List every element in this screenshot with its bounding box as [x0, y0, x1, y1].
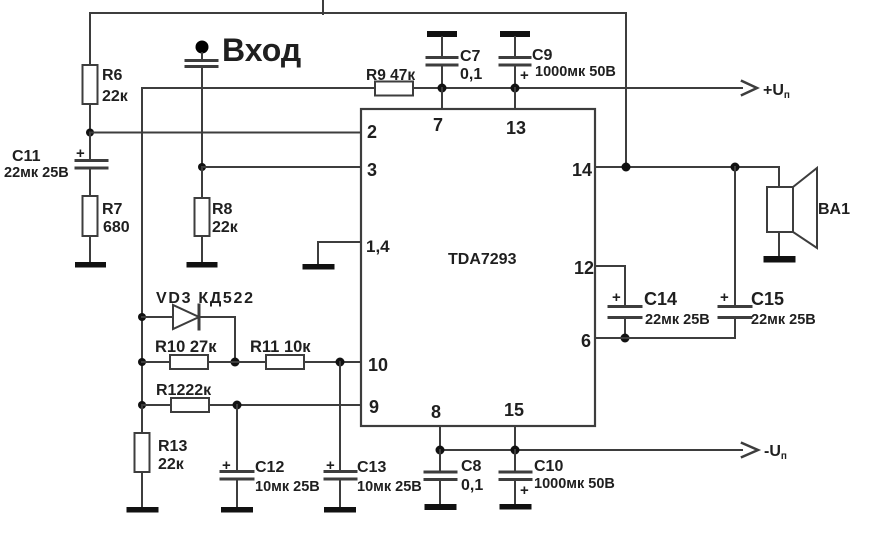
svg-text:C12: C12 — [255, 459, 284, 476]
resistor R11 — [266, 355, 361, 369]
ground above C9 — [500, 31, 530, 37]
wire: pin 7 stub — [441, 88, 443, 109]
node: C9/pin13 junction — [511, 84, 520, 93]
wire: pin 6 line — [595, 337, 735, 339]
svg-text:R11 10к: R11 10к — [250, 338, 311, 356]
wire: pin 14 output line — [595, 167, 779, 187]
node: output/C15 junction — [731, 163, 740, 172]
resistor R6 — [83, 13, 98, 133]
svg-text:+Uп: +Uп — [763, 82, 790, 101]
svg-text:R9 47к: R9 47к — [366, 67, 415, 84]
capacitor C12 — [221, 405, 253, 507]
capacitor C15 — [719, 167, 751, 338]
resistor R13 — [135, 405, 150, 507]
wire: left bus from supply down to R13 — [141, 88, 143, 405]
arrow -U — [742, 443, 758, 457]
node: input terminal — [196, 41, 209, 54]
loudspeaker BA1 — [767, 168, 817, 256]
svg-text:9: 9 — [369, 397, 379, 417]
node: diode/R10/R11 junction — [231, 358, 240, 367]
svg-text:C9: C9 — [532, 47, 553, 64]
svg-text:R7: R7 — [102, 201, 123, 218]
ground at pin 1,4 — [303, 264, 335, 270]
ground under C10 — [500, 504, 532, 510]
svg-text:22мк 25В: 22мк 25В — [751, 312, 816, 328]
svg-text:R1222к: R1222к — [156, 382, 212, 399]
svg-text:12: 12 — [574, 258, 594, 278]
op-amp U1 TDA7293 body — [361, 109, 595, 426]
svg-text:22к: 22к — [158, 456, 185, 473]
node: input/R8/pin3 junction — [198, 163, 206, 171]
svg-text:R6: R6 — [102, 67, 123, 84]
svg-text:6: 6 — [581, 331, 591, 351]
svg-text:15: 15 — [504, 400, 524, 420]
node: R12/C12 junction — [233, 401, 242, 410]
wire: pin 2 line — [90, 132, 361, 134]
node: R6/C11/pin2 junction — [86, 129, 94, 137]
svg-text:22к: 22к — [212, 219, 239, 236]
svg-text:+: + — [520, 482, 529, 499]
svg-text:-Uп: -Uп — [764, 443, 787, 462]
node: C7/pin7 junction — [438, 84, 447, 93]
ground under speaker — [764, 256, 796, 263]
ground under R13 — [127, 507, 159, 513]
resistor R8 — [195, 167, 210, 262]
node: bus/diode junction — [138, 313, 146, 321]
capacitor C10 — [500, 450, 531, 504]
resistor R9 — [375, 82, 413, 96]
svg-text:C8: C8 — [461, 458, 482, 475]
ground above C7 — [427, 31, 457, 37]
wire: top rail from R6 top to output vertical — [90, 13, 626, 167]
svg-text:1000мк 50В: 1000мк 50В — [534, 476, 615, 492]
node: output/top-rail junction — [622, 163, 631, 172]
svg-text:14: 14 — [572, 160, 592, 180]
ground under R7 — [75, 262, 106, 268]
wire — [89, 168, 91, 196]
svg-text:+: + — [222, 457, 231, 474]
wire: pin 8 stub — [439, 426, 441, 450]
svg-text:2: 2 — [367, 122, 377, 142]
svg-text:+: + — [720, 289, 729, 306]
svg-text:3: 3 — [367, 160, 377, 180]
capacitor C8 — [425, 450, 456, 504]
wire: small stub crossing top rail — [322, 0, 324, 14]
wire: pin 13 stub — [514, 88, 516, 109]
svg-text:+: + — [612, 289, 621, 306]
node: C14/pin6 junction — [621, 334, 630, 343]
svg-text:+: + — [76, 145, 85, 162]
node: bus/R12/R13 junction — [138, 401, 146, 409]
svg-text:1000мк 50В: 1000мк 50В — [535, 64, 616, 80]
svg-text:R8: R8 — [212, 201, 233, 218]
capacitor C9 — [500, 37, 530, 88]
wire: pin 15 stub — [514, 426, 516, 450]
ground under R8 — [187, 262, 218, 268]
svg-text:C10: C10 — [534, 458, 563, 475]
ground under C13 — [324, 507, 356, 513]
node: bus/R10 junction — [138, 358, 146, 366]
svg-text:C13: C13 — [357, 459, 386, 476]
svg-text:0,1: 0,1 — [460, 66, 482, 83]
svg-text:R10 27к: R10 27к — [155, 338, 217, 356]
svg-text:+: + — [326, 457, 335, 474]
wire — [208, 361, 266, 363]
wire: pin 3 line — [202, 166, 361, 168]
wire: pin 12 line — [595, 266, 625, 305]
capacitor C14 — [609, 307, 641, 339]
svg-text:10мк 25В: 10мк 25В — [357, 479, 422, 495]
input coupling capacitor — [186, 53, 217, 167]
svg-text:Вход: Вход — [222, 32, 301, 68]
capacitor C11 — [76, 133, 107, 197]
svg-text:+: + — [520, 67, 529, 84]
svg-text:22мк 25В: 22мк 25В — [645, 312, 710, 328]
capacitor C13 — [325, 362, 356, 507]
svg-text:VD3 КД522: VD3 КД522 — [156, 290, 255, 307]
svg-text:C11: C11 — [12, 148, 41, 165]
svg-text:TDA7293: TDA7293 — [448, 251, 517, 268]
svg-text:C7: C7 — [460, 48, 481, 65]
svg-text:22мк 25В: 22мк 25В — [4, 165, 69, 181]
wire: pin 1,4 ground stub — [318, 242, 361, 264]
ground under C12 — [221, 507, 253, 513]
wire: +U supply line to R9 — [142, 87, 375, 89]
svg-text:C15: C15 — [751, 289, 784, 309]
svg-text:10: 10 — [368, 355, 388, 375]
svg-text:0,1: 0,1 — [461, 477, 483, 494]
resistor R12 — [142, 398, 361, 412]
node: R11/C13/pin10 junction — [336, 358, 345, 367]
svg-text:7: 7 — [433, 115, 443, 135]
svg-text:13: 13 — [506, 118, 526, 138]
arrow +U — [742, 81, 757, 95]
diode VD3 — [142, 305, 235, 362]
resistor R7 — [83, 196, 98, 262]
capacitor C7 — [427, 37, 457, 88]
wire: -U rail — [440, 449, 742, 451]
node: pin8/C8 junction — [436, 446, 445, 455]
svg-text:BA1: BA1 — [818, 201, 850, 218]
resistor R10 — [142, 355, 208, 369]
node: pin15/C10 junction — [511, 446, 520, 455]
svg-text:C14: C14 — [644, 289, 677, 309]
svg-text:R13: R13 — [158, 438, 187, 455]
svg-text:10мк 25В: 10мк 25В — [255, 479, 320, 495]
wire: supply rail to +U arrow — [413, 87, 742, 89]
ground under C8 — [425, 504, 457, 510]
svg-text:680: 680 — [103, 219, 130, 236]
svg-text:1,4: 1,4 — [366, 237, 390, 256]
svg-text:22к: 22к — [102, 88, 129, 105]
svg-text:8: 8 — [431, 402, 441, 422]
